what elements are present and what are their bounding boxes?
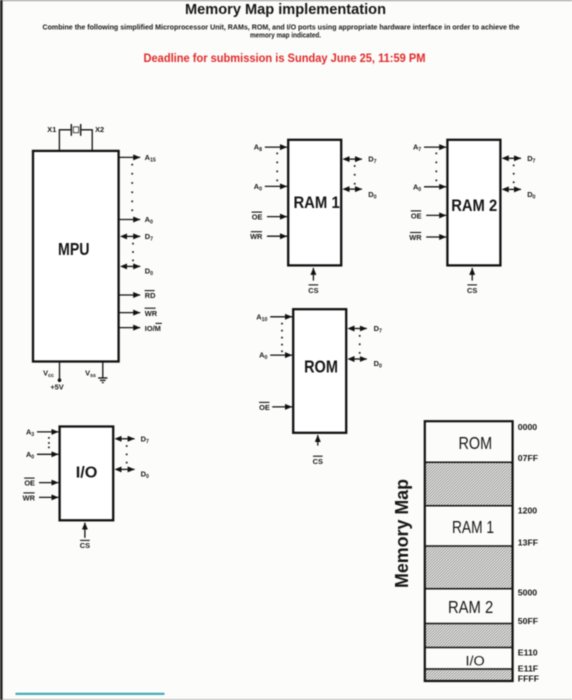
pin RD (active low) (119, 291, 156, 301)
svg-text:50FF: 50FF (518, 616, 538, 626)
pin D0 RAM2 (509, 189, 536, 200)
crystal Y1 (71, 124, 80, 136)
pin CS IO (active low, chip select) (80, 523, 90, 550)
dotted address ellipsis RAM2 (435, 152, 437, 181)
svg-text:D0: D0 (145, 266, 153, 277)
pin CS RAM2 (active low, chip select) (467, 268, 477, 295)
svg-text:Vcc: Vcc (43, 369, 54, 380)
svg-text:D0: D0 (368, 190, 376, 201)
svg-text:Memory Map implementation: Memory Map implementation (185, 1, 386, 18)
svg-text:WR: WR (145, 309, 158, 318)
svg-text:CS: CS (313, 457, 323, 466)
memory map section divider 5000 (425, 588, 513, 590)
svg-text:1200: 1200 (518, 505, 537, 515)
svg-text:RAM 2: RAM 2 (448, 597, 493, 617)
svg-text:X1: X1 (47, 125, 56, 134)
svg-text:WR: WR (23, 493, 36, 502)
svg-text:A0: A0 (254, 182, 262, 193)
pin OE RAM2 (active low) (411, 211, 446, 221)
memory map section divider 1200 (425, 505, 513, 507)
svg-text:X2: X2 (95, 125, 104, 134)
dotted address ellipsis RAM1 (276, 152, 278, 181)
memory map unused region hatch E11F-FFFF (426, 669, 512, 681)
wire Vcc (59, 362, 61, 380)
svg-text:RAM 1: RAM 1 (452, 517, 494, 537)
svg-text:A3: A3 (26, 427, 34, 438)
teal underline artifact bottom-left (16, 693, 165, 695)
svg-text:OE: OE (24, 479, 35, 488)
I/O block (60, 427, 114, 521)
svg-text:WR: WR (250, 232, 263, 241)
pin A3 IO (26, 427, 58, 438)
svg-text:A0: A0 (259, 351, 267, 362)
pin A0 RAM2 (413, 182, 446, 193)
dotted data ellipsis RAM2 (513, 164, 515, 183)
pin CS RAM1 (active low, chip select) (308, 268, 318, 295)
dotted data ellipsis RAM1 (354, 165, 356, 185)
memory map section divider E110 (425, 647, 513, 649)
svg-text:E11F: E11F (518, 664, 538, 674)
pin A0 IO (26, 450, 58, 461)
memory map section divider E11F (425, 668, 513, 670)
svg-text:A0: A0 (413, 182, 421, 193)
pin D7 RAM2 (509, 154, 536, 165)
svg-text:OE: OE (411, 211, 422, 220)
pin D7 ROM (354, 324, 382, 335)
pin OE ROM (active low) (259, 402, 292, 412)
svg-text:Memory Map: Memory Map (391, 479, 412, 588)
pin A0 RAM1 (254, 182, 287, 193)
wire crystal to X2 (81, 130, 92, 151)
pin A15 (119, 153, 156, 164)
svg-text:CS: CS (467, 286, 477, 295)
dotted data ellipsis IO (126, 445, 128, 464)
dotted address ellipsis ROM (281, 323, 283, 353)
svg-text:07FF: 07FF (518, 453, 538, 463)
dotted address ellipsis IO (48, 437, 50, 449)
svg-text:A0: A0 (145, 215, 153, 226)
svg-text:5000: 5000 (518, 588, 537, 598)
svg-text:A15: A15 (145, 153, 156, 164)
svg-text:RAM 1: RAM 1 (293, 193, 339, 212)
svg-text:A7: A7 (413, 143, 421, 154)
svg-text:A0: A0 (26, 450, 34, 461)
svg-text:IO/M: IO/M (145, 324, 161, 333)
RAM 2 block (447, 140, 500, 266)
svg-text:+5V: +5V (50, 383, 63, 392)
pin A0 (119, 215, 153, 226)
pin D0 ROM (354, 359, 382, 370)
memory map section divider 13FF (425, 545, 513, 547)
svg-text:memory map indicated.: memory map indicated. (250, 33, 321, 40)
ROM block (293, 309, 346, 433)
svg-text:Deadline for submission is Sun: Deadline for submission is Sunday June 2… (144, 53, 426, 65)
svg-text:CS: CS (80, 541, 90, 550)
svg-text:I/O: I/O (466, 653, 485, 668)
pin WR (active low) (119, 308, 158, 318)
svg-text:Combine the following simplifi: Combine the following simplified Micropr… (43, 25, 520, 32)
wire Vss (102, 362, 104, 378)
scan border bottom edge (0, 699, 572, 700)
svg-text:D7: D7 (145, 232, 153, 243)
dotted address ellipsis MPU (131, 164, 133, 212)
memory map section divider 07FF (425, 461, 513, 463)
memory map unused region hatch 07FF-1200 (426, 462, 512, 506)
pin OE IO (active low) (24, 478, 58, 488)
svg-text:OE: OE (259, 403, 270, 412)
pin D0 RAM1 (349, 189, 376, 200)
ground (98, 378, 107, 383)
pin D7 (127, 232, 153, 243)
svg-text:D7: D7 (527, 154, 535, 165)
pin WR RAM1 (active low) (250, 232, 287, 242)
svg-text:MPU: MPU (58, 239, 90, 259)
pin WR RAM2 (active low) (409, 233, 446, 243)
svg-text:RD: RD (145, 291, 156, 300)
svg-text:0000: 0000 (518, 422, 537, 432)
svg-text:D7: D7 (368, 155, 376, 166)
MPU block (33, 151, 119, 362)
svg-text:D7: D7 (374, 324, 382, 335)
pin WR IO (active low) (23, 493, 59, 503)
dotted data ellipsis MPU (132, 243, 134, 262)
pin D7 IO (122, 434, 149, 445)
pin OE RAM1 (active low) (252, 212, 287, 222)
svg-text:CS: CS (308, 286, 318, 295)
RAM 1 block (288, 140, 341, 266)
pin A7 RAM2 (413, 143, 446, 154)
memory map unused region hatch 13FF-5000 (426, 546, 512, 589)
svg-text:ROM: ROM (304, 356, 338, 376)
pin A0 ROM (259, 351, 292, 362)
svg-text:E110: E110 (518, 648, 538, 658)
svg-text:Vss: Vss (85, 369, 96, 380)
node +5V dot (58, 378, 62, 382)
svg-text:A10: A10 (256, 312, 267, 323)
pin A10 ROM (256, 312, 292, 323)
svg-text:13FF: 13FF (518, 538, 538, 548)
svg-text:ROM: ROM (459, 433, 493, 453)
scan bar left edge (0, 0, 3, 700)
memory map outline (425, 421, 513, 681)
scan border top edge (0, 0, 572, 1)
svg-text:D7: D7 (141, 434, 149, 445)
svg-text:I/O: I/O (76, 465, 98, 482)
dotted data ellipsis ROM (359, 335, 361, 354)
pin D0 IO (122, 469, 149, 480)
svg-text:FFFF: FFFF (518, 673, 539, 683)
pin CS ROM (active low, chip select) (313, 435, 323, 466)
pin A8 (254, 143, 287, 154)
memory map unused region hatch 50FF-E110 (426, 624, 512, 648)
pin IO/M (memory select) (119, 323, 162, 332)
svg-text:A8: A8 (254, 143, 262, 154)
pin D7 RAM1 (349, 155, 376, 166)
svg-text:OE: OE (252, 213, 263, 222)
svg-text:D0: D0 (374, 359, 382, 370)
svg-text:D0: D0 (527, 190, 535, 201)
svg-text:RAM 2: RAM 2 (451, 196, 497, 215)
svg-text:D0: D0 (141, 470, 149, 481)
memory map section divider 50FF (425, 623, 513, 625)
pin D0 (127, 266, 153, 277)
svg-text:WR: WR (409, 233, 422, 242)
wire X1 to crystal (59, 130, 70, 151)
